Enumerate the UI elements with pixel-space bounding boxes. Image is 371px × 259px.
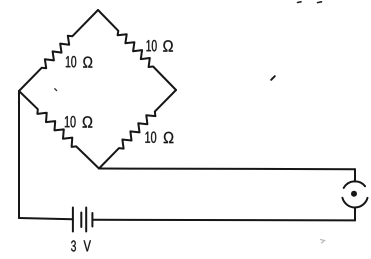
wire battery to bottom right — [92, 219, 355, 222]
label R4 value ohm — [164, 132, 174, 143]
label R2 value ohm — [163, 40, 173, 51]
wire right vertical lower — [354, 207, 356, 220]
stray faint mark bottom right — [321, 240, 325, 244]
label R1 value 10 — [66, 56, 76, 68]
label R1 value ohm — [83, 57, 92, 68]
galvanometer G center dot — [351, 191, 357, 197]
label R3 value ohm — [83, 116, 93, 127]
stray mark speck top 1 — [298, 1, 302, 4]
galvanometer G upper arc — [344, 181, 365, 188]
battery BT1 plate 3 (long positive) — [85, 208, 87, 232]
resistor R1 (top-left 10 ohm) — [19, 10, 98, 91]
stray mark near left vertex — [55, 89, 57, 91]
wire bottom left to battery — [19, 218, 73, 219]
label R4 value 10 — [145, 132, 156, 143]
battery BT1 plate 1 (long positive) — [72, 208, 74, 232]
battery BT1 plate 2 (short negative) — [80, 213, 82, 228]
label R2 value 10 — [147, 40, 157, 52]
label battery value 3 — [71, 240, 76, 251]
resistor R3 (bottom-left 10 ohm) — [19, 91, 99, 169]
wire top horizontal — [99, 168, 355, 171]
label R3 value 10 — [65, 116, 76, 128]
battery BT1 plate 4 (short negative) — [91, 213, 93, 227]
wire right vertical upper — [354, 169, 356, 181]
stray mark speck top 2 — [318, 1, 322, 4]
galvanometer G lower arc — [342, 198, 367, 208]
wire left vertical — [18, 91, 20, 218]
resistor R2 (top-right 10 ohm) — [98, 10, 176, 90]
resistor R4 (bottom-right 10 ohm) — [99, 90, 176, 169]
label battery value V — [84, 240, 91, 251]
stray mark dash mid right — [271, 76, 275, 80]
